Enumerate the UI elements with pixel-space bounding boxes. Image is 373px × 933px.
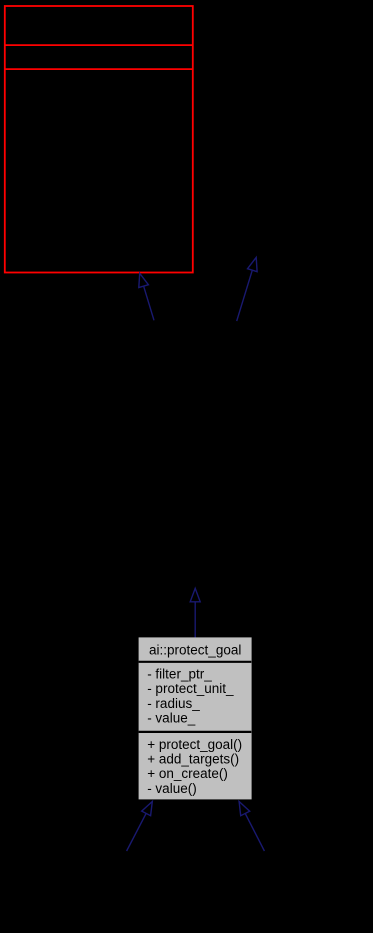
attribute text - filter_ptr_: [147, 666, 212, 681]
svg-text:- radius_: - radius_: [147, 696, 200, 711]
inheritance arrow 5 (from lower-right child up to ai::protect_goal): [239, 802, 264, 852]
svg-text:+ add_targets(): + add_targets(): [147, 752, 239, 767]
svg-text:- protect_unit_: - protect_unit_: [147, 681, 234, 696]
svg-text:- value(): - value(): [147, 781, 197, 796]
class node ai::protect_goal (gray box): [139, 637, 252, 799]
method text - value(): [147, 781, 197, 796]
method text + on_create(): [147, 766, 228, 781]
svg-text:- filter_ptr_: - filter_ptr_: [147, 666, 212, 681]
title text ai::protect_goal: [149, 642, 241, 657]
attribute text - value_: [147, 711, 196, 726]
inheritance arrow 4 (from lower-left child up to ai::protect_goal): [127, 802, 153, 852]
inheritance arrow 3 (from ai::protect_goal up to hidden base): [190, 588, 200, 637]
inheritance arrow 1 (to red node bottom): [139, 273, 154, 320]
svg-text:+ on_create(): + on_create(): [147, 766, 228, 781]
svg-text:- value_: - value_: [147, 711, 196, 726]
attribute text - radius_: [147, 696, 200, 711]
svg-text:ai::protect_goal: ai::protect_goal: [149, 642, 241, 657]
method text + add_targets(): [147, 752, 239, 767]
method text + protect_goal(): [147, 737, 242, 752]
svg-text:+ protect_goal(): + protect_goal(): [147, 737, 242, 752]
base class node (red box, 3 compartments): [5, 6, 193, 273]
attribute text - protect_unit_: [147, 681, 234, 696]
inheritance arrow 2 (to hidden node right of red node): [237, 257, 257, 321]
